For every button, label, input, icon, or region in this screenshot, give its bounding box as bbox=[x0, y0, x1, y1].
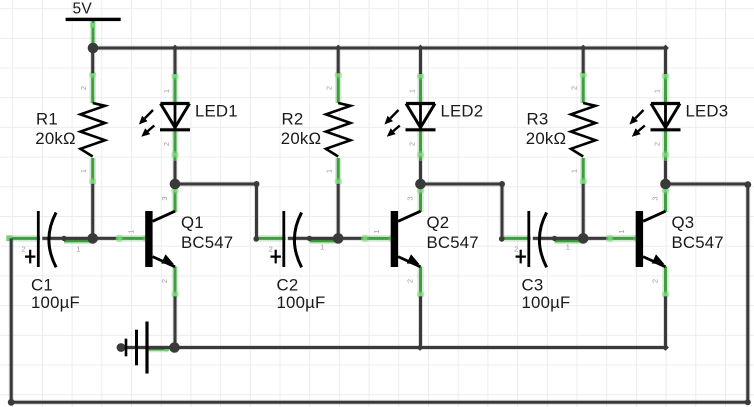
svg-text:2: 2 bbox=[514, 245, 518, 254]
svg-text:BC547: BC547 bbox=[181, 233, 233, 252]
svg-text:1: 1 bbox=[320, 243, 324, 252]
svg-text:C1: C1 bbox=[31, 275, 53, 294]
svg-text:2: 2 bbox=[651, 279, 660, 283]
svg-text:2: 2 bbox=[22, 245, 26, 254]
svg-text:1: 1 bbox=[653, 89, 662, 93]
svg-text:Q2: Q2 bbox=[427, 213, 450, 232]
svg-text:5V: 5V bbox=[73, 0, 93, 17]
svg-text:3: 3 bbox=[406, 196, 415, 200]
svg-text:1: 1 bbox=[617, 229, 626, 233]
svg-text:1: 1 bbox=[325, 169, 334, 173]
svg-text:2: 2 bbox=[653, 142, 662, 146]
svg-text:1: 1 bbox=[162, 89, 171, 93]
svg-text:R3: R3 bbox=[527, 109, 549, 128]
svg-text:2: 2 bbox=[325, 86, 334, 90]
svg-text:BC547: BC547 bbox=[672, 233, 724, 252]
svg-text:R2: R2 bbox=[282, 109, 304, 128]
svg-text:1: 1 bbox=[408, 89, 417, 93]
svg-text:1: 1 bbox=[372, 229, 381, 233]
svg-text:Q1: Q1 bbox=[181, 213, 204, 232]
svg-text:3: 3 bbox=[651, 196, 660, 200]
svg-text:20kΩ: 20kΩ bbox=[35, 129, 75, 148]
svg-text:BC547: BC547 bbox=[427, 233, 479, 252]
svg-text:Q3: Q3 bbox=[672, 213, 695, 232]
svg-text:100µF: 100µF bbox=[277, 293, 326, 312]
svg-text:2: 2 bbox=[160, 279, 169, 283]
svg-text:2: 2 bbox=[408, 142, 417, 146]
svg-text:C2: C2 bbox=[277, 275, 299, 294]
svg-text:2: 2 bbox=[79, 86, 88, 90]
svg-text:1: 1 bbox=[127, 229, 136, 233]
svg-text:2: 2 bbox=[162, 142, 171, 146]
svg-text:1: 1 bbox=[79, 169, 88, 173]
svg-text:20kΩ: 20kΩ bbox=[526, 129, 566, 148]
svg-text:2: 2 bbox=[570, 86, 579, 90]
svg-text:1: 1 bbox=[570, 169, 579, 173]
svg-text:20kΩ: 20kΩ bbox=[281, 129, 321, 148]
svg-text:100µF: 100µF bbox=[31, 293, 80, 312]
svg-text:2: 2 bbox=[406, 279, 415, 283]
svg-text:1: 1 bbox=[76, 245, 80, 254]
svg-text:C3: C3 bbox=[522, 275, 544, 294]
svg-text:100µF: 100µF bbox=[522, 293, 571, 312]
svg-text:1: 1 bbox=[566, 243, 570, 252]
svg-text:LED1: LED1 bbox=[195, 101, 238, 120]
svg-text:3: 3 bbox=[160, 196, 169, 200]
svg-text:R1: R1 bbox=[36, 109, 58, 128]
svg-text:2: 2 bbox=[269, 245, 273, 254]
svg-text:LED2: LED2 bbox=[441, 101, 484, 120]
svg-text:LED3: LED3 bbox=[686, 101, 729, 120]
